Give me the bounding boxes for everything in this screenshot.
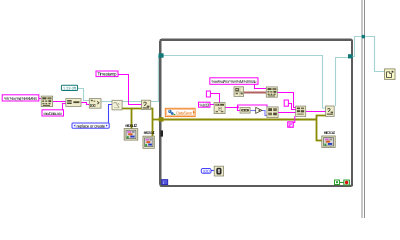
svg-text:%Y_%m_%d_%H%M%S: %Y_%m_%d_%H%M%S bbox=[4, 96, 37, 101]
svg-text:rawData.csv: rawData.csv bbox=[44, 111, 63, 116]
svg-text:1.23 dft: 1.23 dft bbox=[63, 86, 77, 90]
svg-text:%10.5f: %10.5f bbox=[200, 102, 210, 107]
svg-text:error out: error out bbox=[324, 130, 336, 135]
svg-text:%m/%d/%Y %H:%M:%S%3u: %m/%d/%Y %H:%M:%S%3u bbox=[212, 79, 258, 84]
svg-text:replace or create: replace or create bbox=[77, 123, 106, 128]
svg-text:error out 2: error out 2 bbox=[125, 123, 137, 128]
svg-text:error out: error out bbox=[144, 130, 156, 135]
svg-text:i: i bbox=[163, 180, 164, 185]
svg-text:DataSave: DataSave bbox=[176, 110, 193, 115]
svg-text:Timestamp: Timestamp bbox=[98, 72, 117, 77]
svg-text:1000: 1000 bbox=[203, 169, 211, 174]
